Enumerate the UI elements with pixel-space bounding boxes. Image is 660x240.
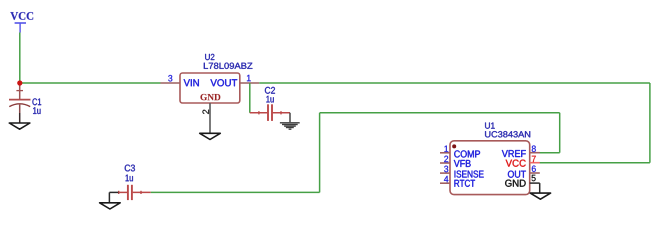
label C1 value 1u	[33, 107, 40, 114]
pin 2 U1 VFB	[440, 156, 450, 163]
pin 1 U1 COMP	[440, 146, 450, 153]
wire into U1 pin 8	[540, 152, 560, 154]
capacitor C2	[250, 104, 290, 121]
pin 3 U2 VIN	[161, 75, 181, 83]
capacitor C3	[118, 185, 150, 200]
regulator U2 pin names	[184, 79, 238, 100]
earth ground at C2	[280, 113, 300, 129]
ground at C3	[100, 192, 121, 209]
label C3 value 1u	[126, 175, 133, 182]
wire into U1 pin 7	[540, 162, 650, 164]
IC U1 pin-1 marker dot and pin names	[452, 144, 526, 186]
label C1 designator	[32, 98, 41, 105]
ground below U2	[200, 133, 221, 139]
wire right edge down	[649, 83, 651, 163]
pin 5 U1 GND	[530, 175, 540, 183]
label C2 designator	[265, 87, 275, 94]
pin 2 U2 GND	[202, 103, 210, 133]
capacitor C1 polarized	[9, 83, 31, 123]
regulator U2 L78L09ABZ	[180, 73, 240, 103]
ground at U1 pin 5	[530, 193, 550, 199]
wire VREF drop	[559, 113, 561, 153]
IC U1 UC3843AN	[450, 141, 530, 195]
label U1 designator	[485, 123, 495, 129]
pin 8 U1 VREF	[530, 145, 540, 152]
pin 3 U1 ISENSE	[440, 166, 450, 173]
ground below C1	[9, 123, 30, 129]
wire C3 to riser	[151, 191, 320, 193]
wire riser up	[319, 113, 321, 193]
wire VCC vertical	[19, 33, 21, 84]
pin 6 U1 OUT	[530, 165, 540, 173]
wire to U2 pin 3	[20, 82, 161, 84]
pin 1 U2 VOUT	[240, 75, 259, 83]
power flag VCC	[10, 12, 33, 32]
label C3 designator	[125, 165, 135, 172]
wire branch down to C2	[249, 83, 251, 113]
label U1 part number UC3843AN	[485, 131, 530, 137]
pin 4 U1 RTCT	[440, 176, 450, 183]
wire across to VREF drop	[320, 112, 560, 114]
label U2 designator	[205, 54, 214, 60]
pin 7 U1 VCC	[530, 156, 540, 163]
wire VOUT to right edge	[259, 82, 650, 84]
label U2 part number L78L09ABZ	[204, 63, 253, 69]
wire pin 5 to ground	[539, 183, 541, 193]
label C2 value 1u	[266, 96, 273, 103]
node junction VCC/C1	[17, 80, 22, 85]
